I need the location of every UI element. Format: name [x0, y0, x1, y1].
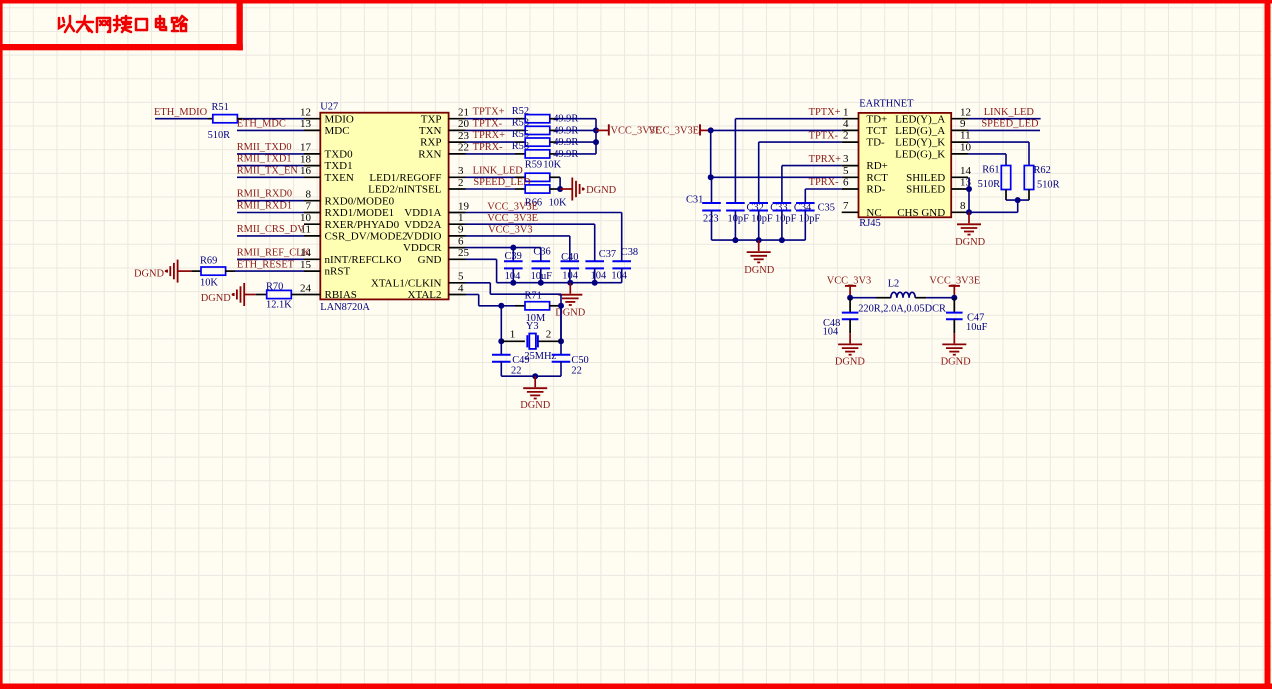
svg-text:RJ45: RJ45 [859, 218, 880, 229]
svg-text:DGND: DGND [520, 400, 551, 411]
svg-text:VCC_3V3: VCC_3V3 [488, 225, 532, 236]
svg-text:RMII_RXD1: RMII_RXD1 [237, 201, 292, 212]
svg-text:DGND: DGND [955, 237, 986, 248]
svg-text:VDD2A: VDD2A [404, 219, 441, 231]
wire pin19 [466, 212, 622, 214]
svg-text:LED(Y)_K: LED(Y)_K [895, 137, 945, 149]
resistor R62 [1024, 166, 1033, 190]
U27 pin 15 (nRST) [304, 270, 320, 272]
RJ45 pin 9 (LED(G)_A) [951, 129, 968, 131]
wire R61-R62 bottoms [1006, 199, 1029, 201]
svg-text:15: 15 [300, 259, 312, 271]
U27 pin 16 (TXEN) [304, 176, 320, 178]
svg-text:1: 1 [510, 328, 516, 340]
svg-text:DGND: DGND [941, 356, 972, 367]
title text 以太网接口电路 (Ethernet interface circuit) [59, 16, 187, 32]
wire pin6 [466, 247, 541, 249]
U27 pin 3 (LED1/REGOFF) [449, 176, 466, 178]
svg-text:TD-: TD- [866, 137, 885, 149]
svg-text:C36: C36 [533, 247, 550, 258]
svg-text:SHILED: SHILED [906, 172, 945, 184]
svg-text:1: 1 [843, 106, 849, 118]
junction [966, 209, 972, 215]
svg-text:TPRX-: TPRX- [809, 177, 840, 188]
junction [1015, 197, 1021, 203]
junction [847, 295, 853, 301]
svg-text:510R: 510R [1037, 179, 1060, 190]
svg-text:2: 2 [458, 177, 464, 189]
svg-text:VDDIO: VDDIO [406, 231, 441, 243]
svg-text:104: 104 [591, 271, 607, 282]
wire RCT [711, 176, 842, 178]
junction [558, 303, 564, 309]
svg-text:10uF: 10uF [966, 322, 988, 333]
svg-text:DGND: DGND [555, 307, 586, 318]
capacitor C32 [726, 202, 745, 204]
svg-text:TXD1: TXD1 [325, 160, 353, 172]
svg-text:10pF: 10pF [775, 213, 797, 224]
wire pin5 XTAL1 [466, 282, 491, 284]
svg-text:VCC_3V3E: VCC_3V3E [648, 125, 699, 136]
op-amp U27 (IC LAN8720A body) [320, 113, 448, 300]
svg-text:20: 20 [458, 118, 470, 130]
capacitor C34 [773, 202, 792, 204]
svg-text:5: 5 [843, 165, 849, 177]
wire crystal ground rail [501, 375, 561, 377]
wire pin13 down to pin8 [968, 189, 970, 212]
wire pin1 [466, 223, 595, 225]
svg-text:6: 6 [843, 177, 849, 189]
capacitor C48 [849, 298, 851, 313]
svg-text:VCC_3V3E: VCC_3V3E [929, 275, 980, 286]
svg-text:CSR_DV/MODE2: CSR_DV/MODE2 [325, 231, 408, 243]
ground DGND (below C47) [953, 333, 955, 343]
svg-text:LED2/nINTSEL: LED2/nINTSEL [368, 184, 442, 196]
resistor R55 [515, 141, 525, 143]
svg-text:C38: C38 [621, 247, 638, 258]
resistor R66 [515, 188, 525, 190]
junction [593, 139, 599, 145]
svg-text:10K: 10K [200, 278, 218, 289]
svg-text:TPRX-: TPRX- [473, 142, 504, 153]
U27 pin 19 (VDD1A) [449, 212, 466, 214]
svg-text:R58: R58 [512, 141, 529, 152]
junction [756, 237, 762, 243]
U27 pin 5 (XTAL1/CLKIN) [449, 282, 466, 284]
svg-text:TCT: TCT [866, 125, 887, 137]
inductor L2 [876, 297, 891, 299]
svg-text:NC: NC [866, 207, 881, 219]
svg-text:RXD1/MODE1: RXD1/MODE1 [325, 207, 395, 219]
svg-text:XTAL2: XTAL2 [408, 289, 442, 301]
resistor R59 [515, 176, 525, 178]
capacitor C47 [953, 298, 955, 313]
svg-text:7: 7 [843, 200, 849, 212]
svg-text:TXEN: TXEN [325, 172, 354, 184]
junction [557, 186, 563, 192]
svg-text:12: 12 [300, 107, 311, 119]
svg-text:LED(G)_K: LED(G)_K [895, 149, 945, 161]
svg-text:R70: R70 [266, 282, 283, 293]
U27 pin 1 (VDD2A) [449, 223, 466, 225]
wire RMII_TX_EN [237, 176, 304, 178]
svg-text:8: 8 [306, 189, 312, 201]
svg-text:RMII_TXD0: RMII_TXD0 [237, 142, 292, 153]
svg-text:510R: 510R [978, 179, 1001, 190]
junction [732, 237, 738, 243]
junction [558, 338, 564, 344]
junction [532, 373, 538, 379]
svg-text:SPEED_LED: SPEED_LED [981, 119, 1039, 130]
svg-text:18: 18 [300, 153, 312, 165]
U27 pin 8 (RXD0/MODE0) [304, 200, 320, 202]
U27 pin 25 (GND) [449, 258, 466, 260]
U27 pin 20 (TXN) [449, 129, 466, 131]
RJ45 pin 4 (TCT) [842, 129, 859, 131]
svg-text:10pF: 10pF [728, 213, 750, 224]
svg-text:C49: C49 [512, 355, 529, 366]
capacitor C39 [512, 248, 514, 262]
svg-text:223: 223 [703, 213, 719, 224]
svg-text:GND: GND [418, 254, 442, 266]
U27 pin 14 (nINT/REFCLKO) [304, 258, 320, 260]
RJ45 pin 6 (RD-) [842, 188, 859, 190]
svg-text:TPTX+: TPTX+ [473, 107, 505, 118]
junction [708, 174, 714, 180]
RJ45 pin 1 (TD+) [842, 118, 859, 120]
svg-text:R51: R51 [212, 102, 229, 113]
svg-text:RD-: RD- [866, 184, 885, 196]
svg-text:TPRX+: TPRX+ [809, 154, 842, 165]
svg-text:MDC: MDC [325, 125, 350, 137]
wire ETH_RESET [235, 270, 304, 272]
svg-text:LAN8720A: LAN8720A [320, 302, 370, 313]
wire VCC node down [710, 130, 712, 177]
RJ45 pin 3 (RD+) [842, 165, 859, 167]
svg-text:22: 22 [571, 365, 581, 376]
U27 pin 12 (MDIO) [304, 118, 320, 120]
svg-text:VCC_3V3: VCC_3V3 [827, 275, 871, 286]
U27 pin 7 (RXD1/MODE1) [304, 212, 320, 214]
capacitor C40 [569, 236, 571, 261]
svg-text:C31: C31 [686, 195, 703, 206]
wire ETH_MDC [237, 129, 304, 131]
svg-text:22: 22 [458, 142, 469, 154]
svg-text:220R,2.0A,0.05DCR: 220R,2.0A,0.05DCR [858, 304, 946, 315]
wire L2 to VCC_3V3E [926, 297, 954, 299]
connector EARTHNET (RJ45 body) [859, 113, 952, 217]
svg-text:14: 14 [960, 165, 972, 177]
wire to L2 [850, 297, 876, 299]
power port VCC_3V3 [845, 285, 856, 287]
wire R52 to bus [556, 118, 596, 120]
svg-text:TXN: TXN [419, 125, 442, 137]
svg-text:13: 13 [300, 118, 312, 130]
svg-text:LINK_LED: LINK_LED [473, 166, 524, 177]
wire ground bus [497, 282, 622, 284]
wire LINK_LED [968, 118, 1041, 120]
wire RD+ [782, 165, 842, 167]
capacitor C31 [711, 177, 713, 203]
svg-text:U27: U27 [320, 101, 338, 112]
svg-text:Y3: Y3 [526, 321, 539, 332]
svg-text:TPTX-: TPTX- [473, 118, 503, 129]
U27 pin 9 (VDDIO) [449, 235, 466, 237]
wire RMII_RXD0 [237, 200, 304, 202]
sheet border [0, 0, 1272, 4]
svg-text:TXD0: TXD0 [325, 149, 354, 161]
svg-text:DGND: DGND [744, 265, 775, 276]
svg-text:ETH_MDIO: ETH_MDIO [154, 107, 208, 118]
wire RMII_CRS_DV [237, 235, 304, 237]
svg-text:R59: R59 [525, 160, 542, 171]
svg-text:VDDCR: VDDCR [403, 242, 442, 254]
svg-text:RXP: RXP [420, 137, 441, 149]
svg-text:10pF: 10pF [751, 213, 773, 224]
wire TCT [711, 129, 842, 131]
wire pin to R58 [466, 153, 516, 155]
wire RMII_RXD1 [237, 212, 304, 214]
svg-text:DGND: DGND [201, 293, 232, 304]
RJ45 pin 7 (NC) [842, 211, 859, 213]
wire R51 to pin 12 [243, 118, 305, 120]
wire R59 down to R66 node [559, 177, 561, 189]
U27 pin 2 (LED2/nINTSEL) [449, 188, 466, 190]
capacitor C36 [540, 248, 542, 262]
svg-text:RCT: RCT [866, 172, 888, 184]
wire down to pin8 row [1017, 200, 1019, 212]
svg-text:R53: R53 [512, 118, 529, 129]
wire termination bus [595, 119, 597, 154]
U27 pin 18 (TXD1) [304, 165, 320, 167]
svg-text:9: 9 [458, 224, 464, 236]
RJ45 pin 2 (TD-) [842, 141, 859, 143]
svg-text:TXP: TXP [421, 113, 442, 125]
svg-text:11: 11 [960, 130, 971, 142]
resistor R69 [191, 270, 201, 272]
resistor R52 [515, 118, 525, 120]
svg-text:MDIO: MDIO [325, 113, 354, 125]
svg-text:22: 22 [511, 365, 521, 376]
svg-text:nRST: nRST [325, 266, 351, 278]
wire left node [500, 306, 502, 342]
junction [510, 245, 516, 251]
svg-text:8: 8 [960, 200, 966, 212]
svg-text:R69: R69 [200, 256, 217, 267]
junction [567, 280, 573, 286]
svg-text:10: 10 [960, 142, 972, 154]
wire pin25 GND [466, 258, 497, 260]
junction [498, 303, 504, 309]
ground DGND (below cap bus) [569, 283, 571, 294]
svg-text:DGND: DGND [835, 356, 866, 367]
svg-text:C50: C50 [571, 355, 588, 366]
svg-text:LED1/REGOFF: LED1/REGOFF [369, 172, 441, 184]
svg-text:10K: 10K [549, 198, 567, 209]
svg-text:6: 6 [458, 235, 464, 247]
svg-text:nINT/REFCLKO: nINT/REFCLKO [325, 254, 402, 266]
wire cap ground rail [712, 239, 806, 241]
U27 pin 6 (VDDCR) [449, 247, 466, 249]
svg-text:DGND: DGND [586, 185, 617, 196]
svg-text:DGND: DGND [134, 269, 165, 280]
svg-text:5: 5 [458, 271, 464, 283]
svg-text:RXN: RXN [418, 149, 441, 161]
junction [538, 280, 544, 286]
U27 pin 24 (RBIAS) [304, 294, 320, 296]
RJ45 pin 14 (SHILED) [951, 176, 968, 178]
svg-text:19: 19 [458, 200, 470, 212]
svg-text:EARTHNET: EARTHNET [859, 99, 914, 110]
svg-text:2: 2 [546, 328, 552, 340]
svg-text:3: 3 [458, 165, 464, 177]
svg-text:10K: 10K [543, 160, 561, 171]
svg-text:4: 4 [843, 118, 849, 130]
wire SPEED_LED [968, 129, 1040, 131]
wire pin14 to pin13 [968, 177, 970, 189]
svg-text:SPEED_LED: SPEED_LED [473, 177, 531, 188]
resistor R70 [256, 294, 267, 296]
RJ45 pin 5 (RCT) [842, 176, 859, 178]
wire pin2 to R66 [466, 188, 516, 190]
svg-text:25: 25 [458, 247, 470, 259]
power port VCC_3V3E [949, 285, 960, 287]
U27 pin 13 (MDC) [304, 129, 320, 131]
RJ45 pin 11 (LED(Y)_K) [951, 141, 968, 143]
U27 pin 23 (RXP) [449, 141, 466, 143]
resistor R53 [515, 129, 525, 131]
crystal Y3 [501, 340, 525, 342]
svg-text:VCC_3V3E: VCC_3V3E [487, 201, 538, 212]
svg-text:23: 23 [458, 130, 470, 142]
svg-text:TPTX+: TPTX+ [809, 107, 841, 118]
wire pin3 to R59 [466, 176, 516, 178]
svg-text:3: 3 [843, 153, 849, 165]
junction [966, 186, 972, 192]
wire pin to R53 [466, 129, 516, 131]
ground DGND (below crystal) [534, 376, 536, 387]
U27 pin 11 (CSR_DV/MODE2) [304, 235, 320, 237]
svg-text:TD+: TD+ [866, 113, 887, 125]
RJ45 pin 13 (SHILED) [951, 188, 968, 190]
svg-text:9: 9 [960, 118, 966, 130]
svg-text:R62: R62 [1034, 165, 1051, 176]
svg-text:104: 104 [823, 326, 839, 337]
svg-text:4: 4 [458, 282, 464, 294]
wire R53 to bus [556, 129, 596, 131]
svg-text:SHILED: SHILED [906, 184, 945, 196]
svg-text:RMII_TX_EN: RMII_TX_EN [237, 165, 299, 176]
svg-text:12.1K: 12.1K [266, 300, 292, 311]
svg-text:L2: L2 [888, 278, 900, 289]
wire to R71 [501, 305, 515, 307]
wire pin9 [466, 235, 570, 237]
svg-text:1: 1 [458, 212, 464, 224]
svg-text:R52: R52 [512, 106, 529, 117]
svg-text:10: 10 [300, 212, 312, 224]
svg-text:7: 7 [306, 200, 312, 212]
junction [498, 338, 504, 344]
wire pin to R52 [466, 118, 516, 120]
svg-text:C35: C35 [818, 202, 835, 213]
wire RMII_REF_CLK [237, 258, 304, 260]
svg-text:104: 104 [611, 271, 627, 282]
capacitor C35 [796, 202, 815, 204]
title box [237, 0, 243, 50]
wire R55 to bus [556, 141, 596, 143]
U27 pin 22 (RXN) [449, 153, 466, 155]
wire pin11 to R62 [968, 141, 1029, 143]
U27 pin 17 (TXD0) [304, 153, 320, 155]
ground DGND (below RJ45 pin8) [968, 212, 970, 223]
svg-text:TPRX+: TPRX+ [473, 130, 506, 141]
wire RD- [805, 188, 841, 190]
junction [592, 280, 598, 286]
RJ45 pin 10 (LED(G)_K) [951, 153, 968, 155]
wire pin10 to R61 [968, 153, 1006, 155]
RJ45 pin 8 (CHS GND) [951, 211, 969, 213]
capacitor C49 [500, 341, 502, 354]
capacitor C38 [621, 213, 623, 262]
svg-text:TPTX-: TPTX- [809, 130, 839, 141]
ground DGND (below C31-C35) [758, 240, 760, 251]
svg-text:RXER/PHYAD0: RXER/PHYAD0 [325, 219, 400, 231]
svg-text:24: 24 [300, 282, 312, 294]
resistor R71 [515, 305, 525, 307]
svg-text:VDD1A: VDD1A [404, 207, 441, 219]
capacitor C37 [594, 224, 596, 261]
wire TD- [759, 141, 842, 143]
svg-text:R55: R55 [512, 129, 529, 140]
power port VCC_3V3E (bar at RJ45) [700, 129, 711, 131]
resistor R51 [208, 118, 213, 120]
svg-text:21: 21 [458, 107, 469, 119]
ground DGND (right of R66) [560, 188, 572, 190]
capacitor C33 [749, 202, 768, 204]
wire pin to R55 [466, 141, 516, 143]
svg-text:510R: 510R [208, 130, 231, 141]
svg-text:10pF: 10pF [799, 213, 821, 224]
junction [593, 127, 599, 133]
junction [951, 295, 957, 301]
wire TD+ [735, 118, 841, 120]
svg-text:LED(Y)_A: LED(Y)_A [895, 113, 945, 125]
svg-text:RD+: RD+ [866, 160, 887, 172]
svg-text:RMII_REF_CLK: RMII_REF_CLK [237, 247, 311, 258]
wire RMII_TXD1 [237, 165, 304, 167]
wire pin4 XTAL2 [466, 294, 479, 296]
capacitor C50 [560, 306, 562, 355]
svg-text:ETH_MDC: ETH_MDC [237, 118, 286, 129]
svg-text:C40: C40 [561, 252, 578, 263]
svg-text:C39: C39 [505, 251, 522, 262]
RJ45 pin 12 (LED(Y)_A) [951, 118, 968, 120]
svg-text:C37: C37 [599, 249, 616, 260]
wire R58 to bus [556, 153, 596, 155]
U27 pin 21 (TXP) [449, 118, 466, 120]
U27 pin 10 (RXER/PHYAD0) [304, 223, 320, 225]
svg-text:RMII_CRS_DV: RMII_CRS_DV [237, 224, 306, 235]
svg-text:LED(G)_A: LED(G)_A [895, 125, 945, 137]
wire ETH_MDIO to R51 [155, 118, 208, 120]
junction [708, 127, 714, 133]
junction [779, 237, 785, 243]
junction [510, 280, 516, 286]
ground DGND (below C48) [849, 333, 851, 343]
svg-text:R61: R61 [982, 165, 999, 176]
svg-text:XTAL1/CLKIN: XTAL1/CLKIN [371, 277, 442, 289]
wire RMII_TXD0 [237, 153, 304, 155]
